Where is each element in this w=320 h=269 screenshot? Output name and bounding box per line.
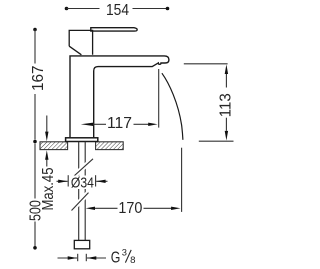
dimension 113	[184, 64, 234, 141]
dimension 170	[86, 148, 182, 212]
svg-text:154: 154	[106, 2, 129, 19]
dimension Max.45 down arrow	[45, 116, 48, 142]
hose break slash upper	[74, 159, 93, 176]
hose break slash lower	[72, 193, 89, 211]
svg-text:170: 170	[118, 200, 142, 217]
base flange	[66, 138, 98, 142]
dimension 167	[33, 28, 37, 144]
svg-text:500: 500	[28, 200, 45, 221]
dimension 117	[81, 69, 159, 128]
countertop left (hatched)	[40, 142, 68, 150]
svg-text:Ø34: Ø34	[71, 175, 94, 192]
svg-text:8: 8	[130, 255, 135, 265]
water stream	[162, 73, 183, 140]
G3/8 fitting	[74, 240, 89, 248]
dimension O34	[57, 175, 108, 186]
faucet body and spout	[70, 56, 169, 138]
faucet cartridge cap	[69, 30, 92, 54]
svg-text:G: G	[111, 249, 121, 266]
svg-text:3: 3	[122, 248, 127, 258]
faucet lever	[91, 28, 137, 31]
dimension G3/8	[58, 254, 107, 261]
svg-text:167: 167	[30, 66, 47, 92]
countertop right (hatched)	[96, 142, 124, 150]
svg-text:117: 117	[107, 115, 132, 132]
dimension Max.45 up arrow	[45, 150, 48, 166]
svg-text:113: 113	[218, 93, 235, 117]
dimension 500	[33, 144, 37, 250]
supply pipe	[79, 142, 86, 241]
dimension 154	[65, 7, 170, 11]
